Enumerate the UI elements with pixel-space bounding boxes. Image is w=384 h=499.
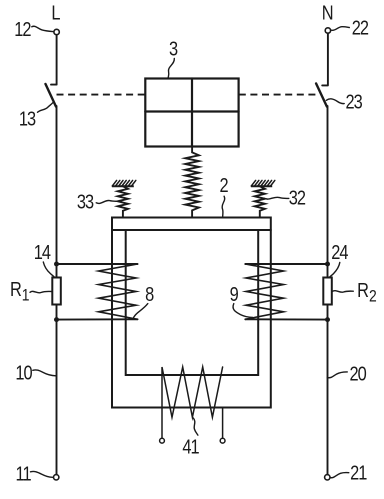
- leader R1: [30, 291, 52, 292]
- svg-text:R1: R1: [10, 277, 30, 305]
- actuator box 3: [145, 79, 238, 147]
- svg-text:13: 13: [19, 107, 36, 130]
- svg-text:R2: R2: [357, 278, 377, 306]
- svg-text:24: 24: [331, 240, 348, 263]
- wire right main (20): [327, 106, 329, 474]
- leader 10: [33, 370, 56, 376]
- leader 22: [332, 27, 350, 31]
- leader R2: [332, 291, 353, 293]
- node 24: [325, 262, 330, 267]
- anchor hatching right: [251, 180, 274, 186]
- svg-text:L: L: [51, 1, 60, 24]
- svg-text:21: 21: [350, 461, 367, 484]
- mechanical link dashed left: [57, 94, 146, 96]
- svg-text:23: 23: [346, 90, 363, 113]
- wire N upper with fixed contact hook: [322, 34, 328, 86]
- node 14: [54, 262, 59, 267]
- wire lower right branch: [245, 318, 327, 320]
- switch 13 blade: [46, 84, 57, 107]
- terminal 22 (N neutral input): [325, 28, 330, 33]
- leader 24: [330, 263, 340, 278]
- svg-text:2: 2: [220, 173, 229, 196]
- leader 14: [43, 262, 54, 277]
- svg-text:N: N: [322, 1, 334, 24]
- coil 9: [245, 264, 283, 319]
- wire node 24 to coil 9: [245, 263, 327, 265]
- svg-text:32: 32: [289, 186, 306, 209]
- winding terminal left: [160, 438, 165, 443]
- leader 11: [31, 471, 53, 477]
- leader 21: [330, 473, 349, 478]
- resistor R1: [52, 278, 61, 305]
- winding terminal right: [220, 438, 225, 443]
- leader 2: [222, 196, 225, 216]
- winding 41: [162, 367, 223, 438]
- svg-text:41: 41: [182, 435, 199, 458]
- svg-text:11: 11: [16, 462, 32, 485]
- leader 3: [168, 59, 174, 79]
- terminal 11: [54, 475, 59, 480]
- svg-text:8: 8: [145, 282, 154, 305]
- spring 32: [255, 186, 265, 217]
- leader 33: [96, 200, 117, 203]
- leader 23: [326, 99, 344, 104]
- spring (box 3 to armature 2): [185, 147, 199, 218]
- spring 33: [118, 186, 128, 217]
- node lower right: [325, 317, 330, 322]
- resistor R2: [323, 278, 332, 305]
- armature / yoke 2 outer: [112, 218, 271, 408]
- leader 12: [32, 26, 53, 31]
- svg-text:3: 3: [169, 37, 178, 60]
- anchor hatching left: [112, 180, 136, 186]
- wire L upper with fixed contact hook: [51, 35, 57, 84]
- anchor line left: [112, 185, 134, 187]
- leader 9: [233, 304, 253, 318]
- leader 8: [133, 304, 148, 319]
- svg-text:12: 12: [14, 17, 31, 40]
- anchor line right: [251, 185, 272, 187]
- wire lower left branch: [57, 318, 138, 320]
- coil 8: [99, 264, 138, 319]
- leader 32: [264, 197, 289, 199]
- wire left main (10): [56, 106, 58, 474]
- mechanical link dashed right: [239, 94, 318, 96]
- terminal 12 (L phase input): [54, 29, 59, 34]
- leader 13: [38, 103, 53, 113]
- svg-text:22: 22: [352, 16, 369, 39]
- winding 41 right lead: [222, 408, 224, 439]
- svg-text:20: 20: [350, 362, 367, 385]
- node lower left: [54, 317, 59, 322]
- leader 41: [193, 418, 198, 435]
- svg-text:33: 33: [77, 190, 94, 213]
- leader 20: [327, 372, 347, 378]
- switch 23 blade: [316, 84, 327, 107]
- svg-text:10: 10: [15, 361, 32, 384]
- terminal 21: [325, 475, 330, 480]
- svg-text:14: 14: [34, 240, 51, 263]
- wire node 14 to coil 8: [57, 263, 138, 265]
- svg-text:9: 9: [230, 282, 239, 305]
